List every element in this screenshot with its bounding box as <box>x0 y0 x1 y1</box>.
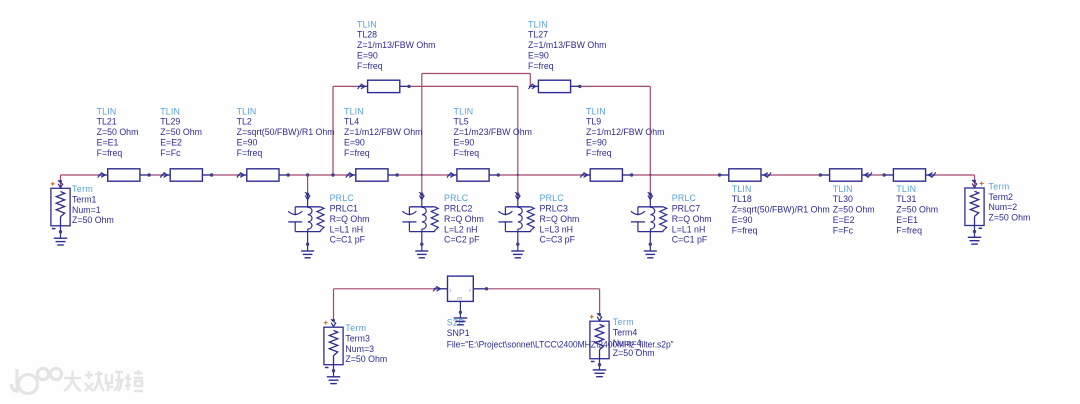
svg-text:2: 2 <box>469 288 471 292</box>
svg-text:S2P: S2P <box>447 318 465 328</box>
svg-text:Z=50 Ohm: Z=50 Ohm <box>72 215 114 225</box>
port Term1 <box>51 180 70 238</box>
transmission line TL5 <box>447 169 500 181</box>
wire from main line to PRLC3 <box>517 175 519 194</box>
svg-text:TLIN: TLIN <box>896 184 916 194</box>
svg-text:Num=1: Num=1 <box>72 205 101 215</box>
svg-text:F=freq: F=freq <box>586 148 612 158</box>
svg-text:Z=50 Ohm: Z=50 Ohm <box>97 127 139 137</box>
svg-text:Num=3: Num=3 <box>345 344 374 354</box>
svg-text:Z=50 Ohm: Z=50 Ohm <box>896 205 938 215</box>
svg-text:Term: Term <box>72 184 93 194</box>
svg-text:Z=50 Ohm: Z=50 Ohm <box>345 354 387 364</box>
svg-text:PRLC: PRLC <box>444 193 469 203</box>
wire: top horizontal to TL27 <box>422 73 531 75</box>
svg-text:F=freq: F=freq <box>237 148 263 158</box>
svg-text:F=freq: F=freq <box>97 148 123 158</box>
wire: Term1 drop <box>60 175 62 187</box>
wire from main line to PRLC1 <box>307 175 309 194</box>
svg-text:Num=2: Num=2 <box>989 202 1018 212</box>
svg-text:R=Q Ohm: R=Q Ohm <box>672 214 712 224</box>
svg-text:Z=50 Ohm: Z=50 Ohm <box>833 205 875 215</box>
svg-text:TL31: TL31 <box>896 194 916 204</box>
svg-text:Z=1/m12/FBW Ohm: Z=1/m12/FBW Ohm <box>586 127 664 137</box>
svg-text:C=C2 pF: C=C2 pF <box>444 235 480 245</box>
svg-text:Z=1/m23/FBW Ohm: Z=1/m23/FBW Ohm <box>454 127 532 137</box>
svg-text:PRLC: PRLC <box>672 193 697 203</box>
svg-text:TLIN: TLIN <box>344 106 364 116</box>
svg-text:TLIN: TLIN <box>97 106 117 116</box>
svg-text:PRLC1: PRLC1 <box>330 204 358 214</box>
svg-text:F=freq: F=freq <box>344 148 370 158</box>
wire: TL28 row horizontal <box>333 85 518 87</box>
wire: bottom loop horizontal <box>334 288 600 290</box>
wire: TL27 left pin drop <box>529 74 531 87</box>
svg-text:PRLC7: PRLC7 <box>672 204 700 214</box>
wire: TL28 left vertical (node 1) <box>332 86 334 175</box>
wire: bottom loop right vertical <box>599 289 601 316</box>
transmission line TL30 <box>819 169 872 181</box>
wire: main line <box>61 174 975 176</box>
ground of PRLC7 <box>644 251 657 258</box>
junction node at PRLC3 <box>517 174 519 176</box>
svg-text:L=L1 nH: L=L1 nH <box>330 224 364 234</box>
wire from main line to PRLC2 <box>421 175 423 194</box>
svg-text:TL29: TL29 <box>160 117 180 127</box>
transmission line TL2 <box>237 169 290 181</box>
ground of PRLC1 <box>301 251 314 258</box>
parallel RLC resonator PRLC7 <box>631 192 667 251</box>
svg-text:L=L3 nH: L=L3 nH <box>540 224 574 234</box>
svg-text:TLIN: TLIN <box>833 184 853 194</box>
svg-text:F=Fc: F=Fc <box>160 148 181 158</box>
svg-text:Z=50 Ohm: Z=50 Ohm <box>989 213 1031 223</box>
svg-text:Term2: Term2 <box>989 192 1014 202</box>
svg-text:Term1: Term1 <box>72 194 97 204</box>
svg-text:C=C1 pF: C=C1 pF <box>672 235 708 245</box>
svg-text:Z=sqrt(50/FBW)/R1 Ohm: Z=sqrt(50/FBW)/R1 Ohm <box>237 127 335 137</box>
svg-text:E=E1: E=E1 <box>896 215 918 225</box>
svg-text:E=90: E=90 <box>357 51 378 61</box>
wire: TL27 left horizontal <box>530 85 538 87</box>
svg-text:TLIN: TLIN <box>160 106 180 116</box>
svg-text:R=Q Ohm: R=Q Ohm <box>540 214 580 224</box>
wire: bottom loop left vertical <box>333 289 335 321</box>
svg-text:E=90: E=90 <box>237 138 258 148</box>
svg-text:Z=50 Ohm: Z=50 Ohm <box>613 348 655 358</box>
transmission line TL21 <box>98 169 151 181</box>
wire: TL28 right vertical to node 3 <box>517 86 519 175</box>
transmission line TL9 <box>580 169 633 181</box>
svg-text:F=Fc: F=Fc <box>833 225 854 235</box>
svg-text:E=E2: E=E2 <box>833 215 855 225</box>
svg-text:TL9: TL9 <box>586 117 601 127</box>
svg-text:Z=1/m13/FBW Ohm: Z=1/m13/FBW Ohm <box>357 40 435 50</box>
svg-text:F=freq: F=freq <box>528 61 554 71</box>
wire: TL27 right vertical to node 4 <box>649 86 651 175</box>
junction node at PRLC2 <box>421 174 423 176</box>
svg-text:Z=1/m12/FBW Ohm: Z=1/m12/FBW Ohm <box>344 127 422 137</box>
junction node 1 coupling tap <box>331 173 334 176</box>
port Term2 <box>965 180 984 238</box>
svg-text:Z=50 Ohm: Z=50 Ohm <box>160 127 202 137</box>
svg-text:SNP1: SNP1 <box>447 328 470 338</box>
wire: Term2 drop <box>974 175 976 186</box>
svg-text:Term: Term <box>613 317 634 327</box>
svg-text:L=L1 nH: L=L1 nH <box>672 224 706 234</box>
svg-text:TLIN: TLIN <box>237 106 257 116</box>
svg-text:PRLC: PRLC <box>540 193 565 203</box>
svg-text:TL5: TL5 <box>454 117 469 127</box>
svg-text:R=Q Ohm: R=Q Ohm <box>330 214 370 224</box>
port Term4 <box>590 313 609 370</box>
transmission line TL28 <box>358 80 411 92</box>
ground of Term4 <box>593 370 606 377</box>
parallel RLC resonator PRLC1 <box>288 192 324 251</box>
svg-text:PRLC2: PRLC2 <box>444 204 472 214</box>
svg-text:PRLC: PRLC <box>330 193 355 203</box>
S2P data block SNP1 <box>433 276 488 318</box>
ground of PRLC3 <box>511 251 524 258</box>
svg-text:F=freq: F=freq <box>357 61 383 71</box>
svg-text:C=C3 pF: C=C3 pF <box>540 235 576 245</box>
watermark logo <box>11 368 62 393</box>
junction node at PRLC1 <box>306 173 309 176</box>
ground of PRLC2 <box>415 251 428 258</box>
svg-text:TL28: TL28 <box>357 30 377 40</box>
junction node at PRLC7 <box>649 174 651 176</box>
parallel RLC resonator PRLC3 <box>498 192 534 251</box>
wire from main line to PRLC7 <box>649 175 651 194</box>
transmission line TL31 <box>883 169 936 181</box>
svg-text:TL30: TL30 <box>833 194 853 204</box>
svg-text:E=90: E=90 <box>454 138 475 148</box>
svg-text:F=freq: F=freq <box>896 225 922 235</box>
svg-text:File="E:\Project\sonnet\LTCC\2: File="E:\Project\sonnet\LTCC\2400MHZ\240… <box>447 339 674 349</box>
svg-text:1: 1 <box>449 288 451 292</box>
svg-text:TLIN: TLIN <box>586 106 606 116</box>
svg-text:Term3: Term3 <box>345 333 370 343</box>
svg-text:Term: Term <box>345 323 366 333</box>
svg-text:TL2: TL2 <box>237 117 252 127</box>
svg-text:E=90: E=90 <box>344 138 365 148</box>
svg-text:E=90: E=90 <box>732 215 753 225</box>
parallel RLC resonator PRLC2 <box>402 192 438 251</box>
svg-text:Term: Term <box>989 181 1010 191</box>
ground of Term2 <box>968 237 981 244</box>
ground of Term3 <box>327 377 340 384</box>
wire: node 2 vertical up <box>421 74 423 176</box>
transmission line TL29 <box>160 169 213 181</box>
svg-text:L=L2 nH: L=L2 nH <box>444 224 478 234</box>
transmission line TL27 <box>528 80 581 92</box>
svg-text:TL27: TL27 <box>528 30 548 40</box>
svg-text:Z=sqrt(50/FBW)/R1 Ohm: Z=sqrt(50/FBW)/R1 Ohm <box>732 205 830 215</box>
svg-text:Term4: Term4 <box>613 327 638 337</box>
svg-text:Z=1/m13/FBW Ohm: Z=1/m13/FBW Ohm <box>528 40 606 50</box>
transmission line TL18 <box>718 169 771 181</box>
svg-text:F=freq: F=freq <box>454 148 480 158</box>
svg-text:C=C1 pF: C=C1 pF <box>330 235 366 245</box>
watermark text <box>64 370 143 391</box>
svg-text:E=E1: E=E1 <box>97 138 119 148</box>
ground of Term1 <box>54 238 67 245</box>
transmission line TL4 <box>346 169 399 181</box>
svg-text:PRLC3: PRLC3 <box>540 204 568 214</box>
svg-text:TLIN: TLIN <box>454 106 474 116</box>
svg-text:F=freq: F=freq <box>732 225 758 235</box>
svg-text:E=90: E=90 <box>528 51 549 61</box>
svg-text:TL4: TL4 <box>344 117 359 127</box>
ground of SNP1 <box>454 318 468 325</box>
svg-text:E=E2: E=E2 <box>160 138 182 148</box>
svg-text:E=90: E=90 <box>586 138 607 148</box>
svg-text:R=Q Ohm: R=Q Ohm <box>444 214 484 224</box>
svg-text:TL18: TL18 <box>732 194 752 204</box>
svg-text:TLIN: TLIN <box>528 19 548 29</box>
port Term3 <box>324 319 343 377</box>
svg-text:TL21: TL21 <box>97 117 117 127</box>
wire: TL27 right horizontal <box>571 85 650 87</box>
svg-text:TLIN: TLIN <box>357 19 377 29</box>
svg-text:TLIN: TLIN <box>732 184 752 194</box>
